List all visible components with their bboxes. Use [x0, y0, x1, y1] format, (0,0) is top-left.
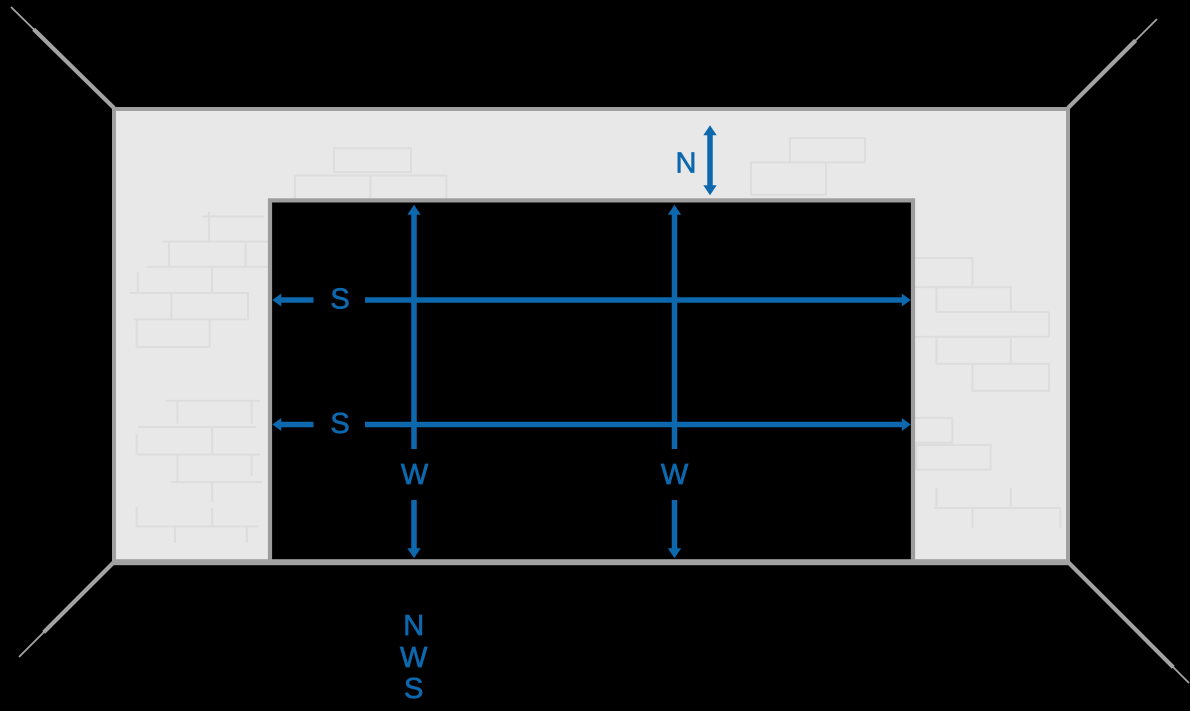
- svg-text:W: W: [661, 459, 689, 491]
- svg-text:N: N: [403, 610, 424, 642]
- svg-text:S: S: [330, 408, 349, 440]
- svg-text:N: N: [676, 148, 697, 180]
- svg-text:S: S: [330, 284, 349, 316]
- svg-text:W: W: [400, 642, 428, 674]
- svg-text:S: S: [404, 673, 423, 705]
- svg-text:W: W: [401, 459, 429, 491]
